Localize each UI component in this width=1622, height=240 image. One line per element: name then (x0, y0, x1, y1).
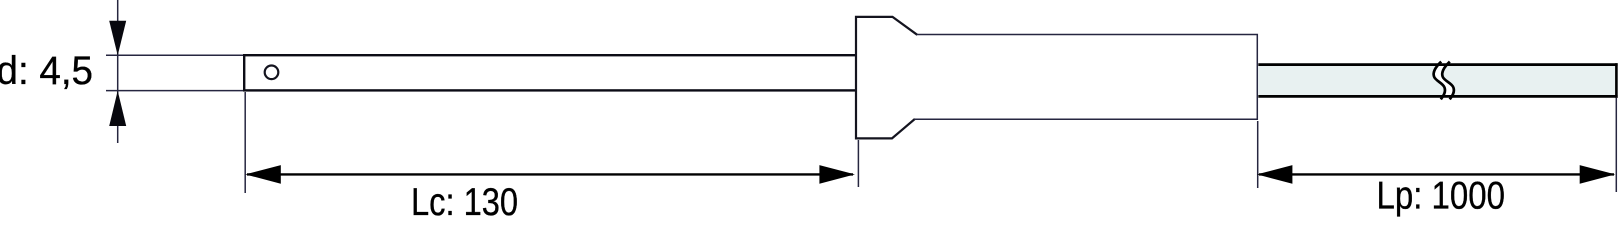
cable break white gap (1434, 63, 1454, 98)
extension line, tube bottom edge (106, 90, 244, 92)
Lc left arrowhead (245, 165, 280, 184)
Lp left arrowhead (1257, 165, 1293, 184)
handle body fill (856, 17, 1258, 139)
Lp extension line left (1257, 121, 1259, 188)
Lc right arrowhead (819, 165, 855, 184)
cable bottom border (1258, 95, 1617, 98)
cable fill (1258, 63, 1618, 98)
d dimension top arrowhead (109, 21, 126, 56)
Lc dimension line (247, 173, 853, 175)
sheath hole (265, 66, 279, 80)
Lp extension line right (1615, 98, 1617, 192)
probe sheath tube (244, 55, 857, 90)
svg-text:Lc: 130: Lc: 130 (411, 181, 518, 217)
d dimension bottom arrowhead (109, 91, 126, 126)
svg-text:Lp: 1000: Lp: 1000 (1377, 174, 1506, 217)
cable break curve left (1434, 62, 1445, 100)
extension line, tube top edge (106, 54, 244, 56)
Lp dimension line (1259, 173, 1614, 175)
handle collar outline (856, 17, 917, 138)
handle body outline (914, 35, 1257, 120)
cable break curve right (1442, 62, 1454, 100)
svg-text:d: 4,5: d: 4,5 (0, 49, 93, 93)
Lc extension line right (857, 140, 859, 187)
cable end border (1615, 63, 1618, 98)
Lc extension line left (244, 92, 246, 193)
cable top border (1258, 63, 1617, 66)
d dimension line (vertical) (117, 0, 119, 143)
Lp right arrowhead (1580, 165, 1616, 184)
